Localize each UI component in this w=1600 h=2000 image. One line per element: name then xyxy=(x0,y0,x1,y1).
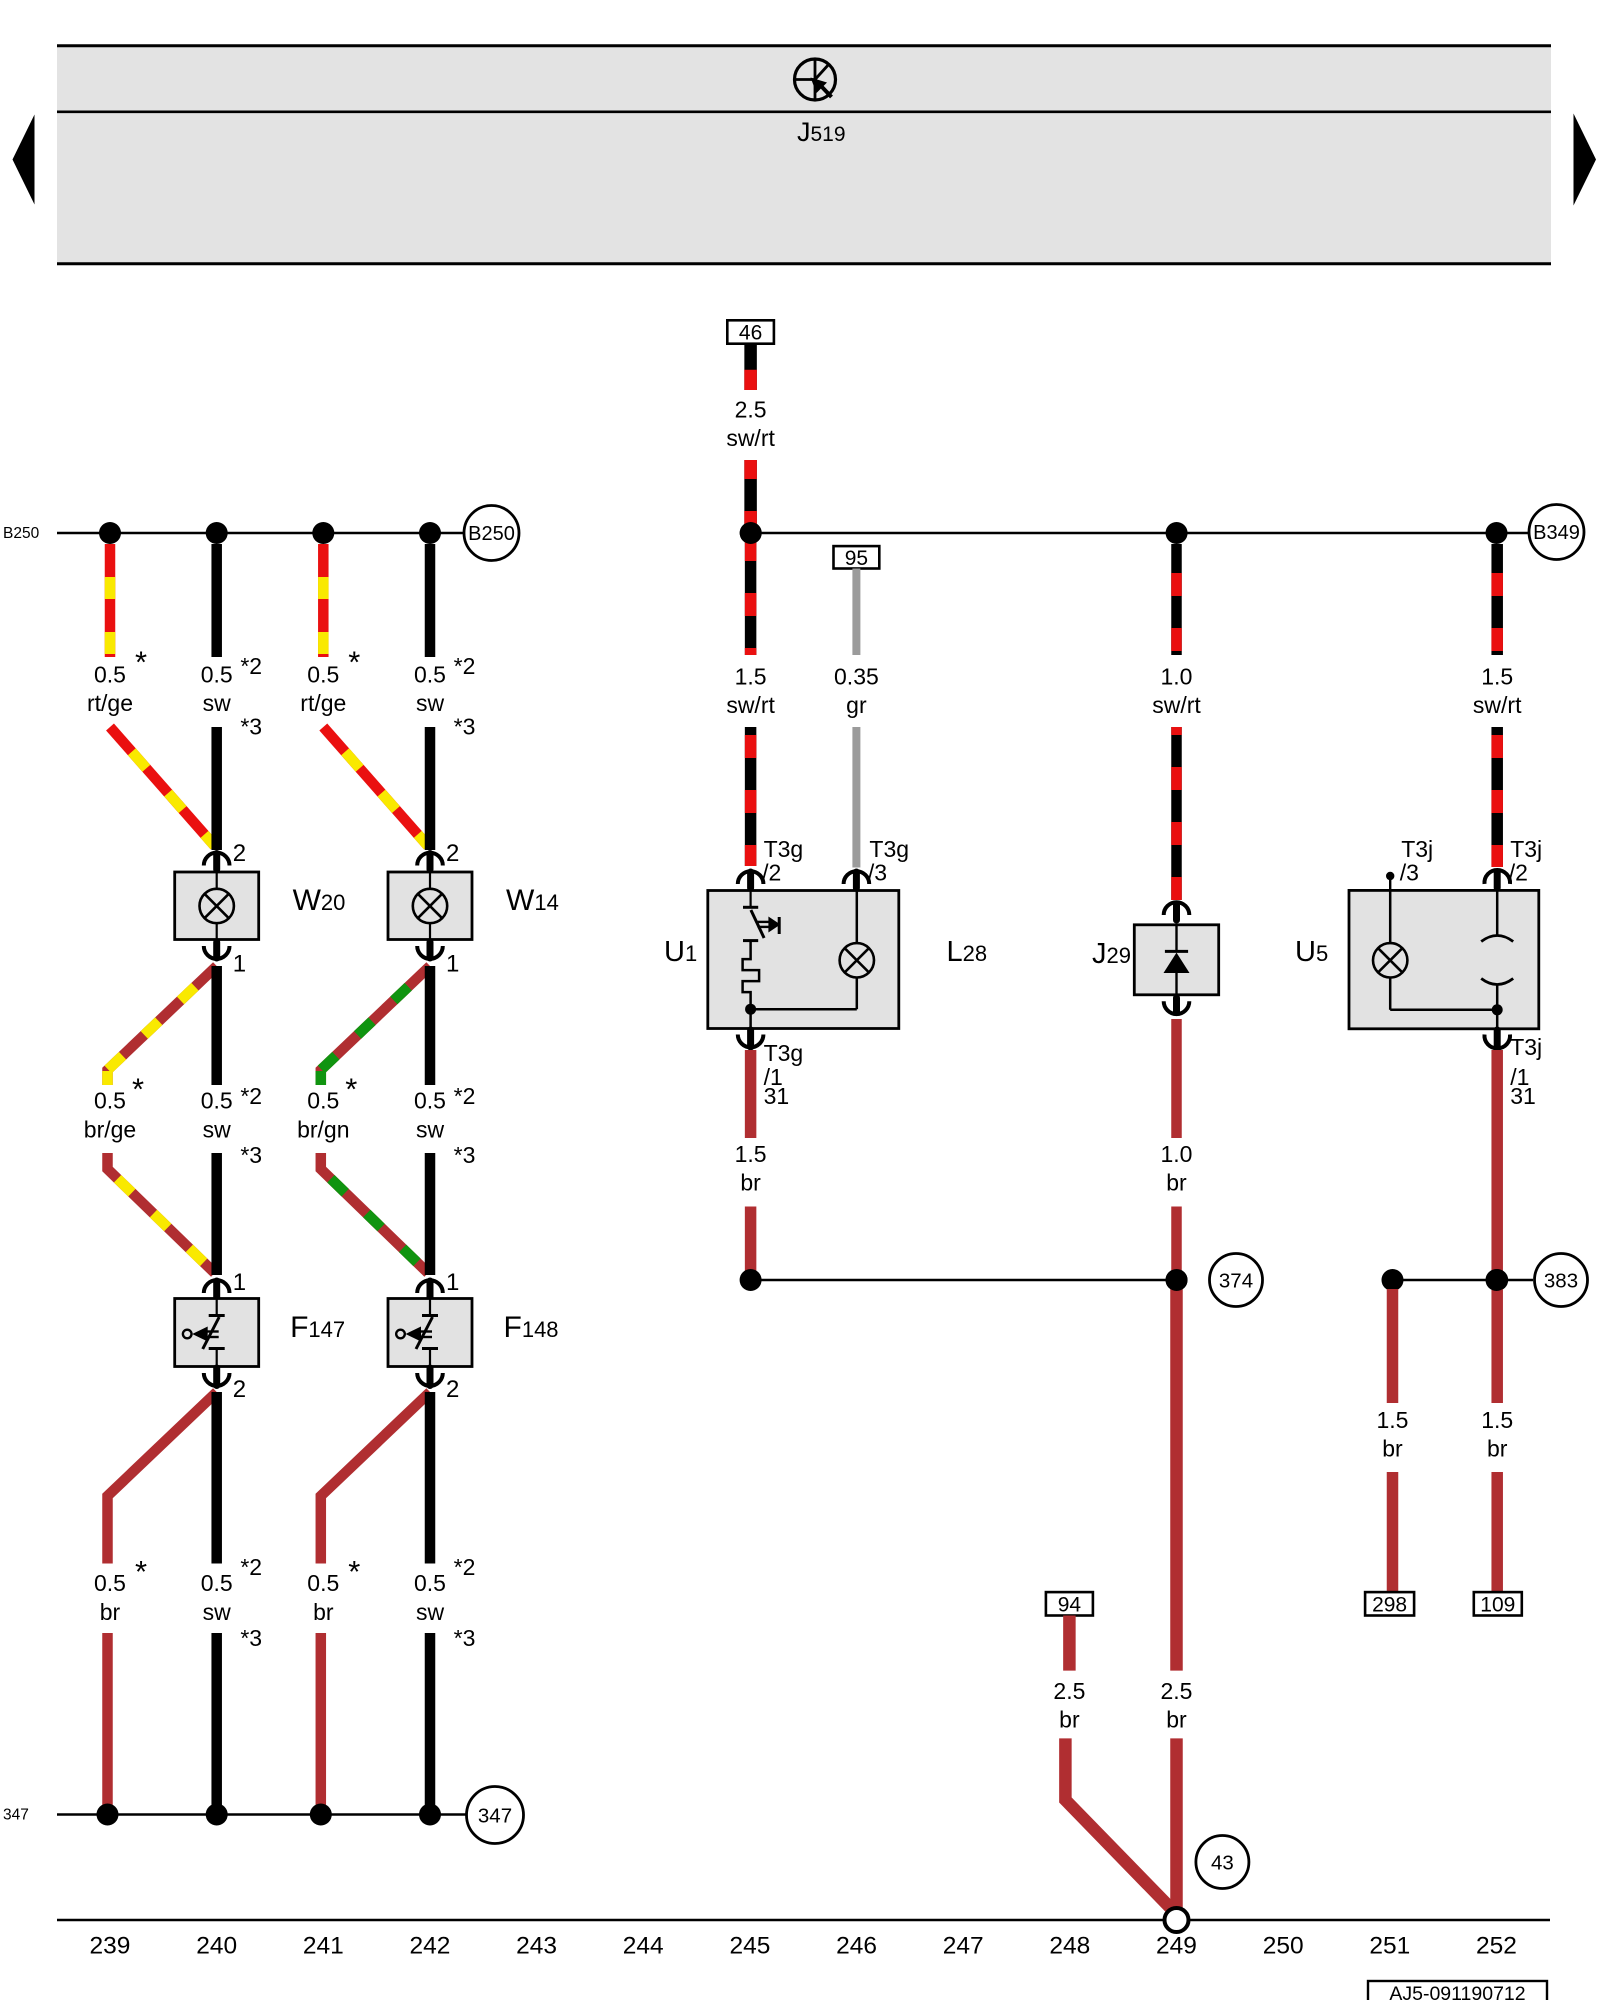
svg-text:1: 1 xyxy=(446,1269,459,1296)
wire 0.5 br to ground 347 xyxy=(102,1633,113,1815)
svg-text:251: 251 xyxy=(1369,1933,1410,1960)
svg-text:0.5: 0.5 xyxy=(414,1088,446,1114)
svg-text:sw/rt: sw/rt xyxy=(1473,692,1522,718)
junction dot 347/240 xyxy=(206,1804,228,1826)
junction dot B349/249 xyxy=(1166,522,1188,544)
cigarette lighter U1 / lamp L28 box xyxy=(708,891,899,1029)
wire 1.5 br from node 383 xyxy=(1387,1289,1399,1403)
lamp symbol W14 xyxy=(413,889,447,923)
page-link arrow right xyxy=(1574,114,1597,206)
label 0.5 sw xyxy=(201,1083,262,1168)
bus line B349 (terminal 30 connection) xyxy=(751,532,1529,535)
connector T3g/1 on U1 xyxy=(738,1030,803,1109)
label W20 xyxy=(293,884,346,917)
wire 1.0 sw/rt to diode J29 xyxy=(1171,727,1182,900)
lamp symbol in U5 xyxy=(1373,943,1407,977)
svg-text:W14: W14 xyxy=(506,884,559,917)
svg-text:br/gn: br/gn xyxy=(297,1117,349,1143)
node line 374 xyxy=(751,1279,1177,1282)
label L28 xyxy=(947,936,988,968)
wire 0.5 br elbow from F147 pin 2 xyxy=(108,1392,217,1564)
svg-text:*2: *2 xyxy=(240,1083,262,1109)
wire 0.5 sw from B250 (col 429) xyxy=(425,544,436,657)
svg-text:br/ge: br/ge xyxy=(84,1117,136,1143)
svg-text:sw: sw xyxy=(203,690,232,716)
svg-text:252: 252 xyxy=(1476,1933,1517,1960)
wire 1.5 br to terminal 298 xyxy=(1387,1472,1399,1592)
connector T3g/3 on U1 xyxy=(844,836,909,888)
svg-text:/3: /3 xyxy=(1400,860,1419,886)
label 2.5 sw/rt xyxy=(726,397,775,452)
ground line 347 xyxy=(57,1813,466,1816)
svg-text:sw: sw xyxy=(203,1599,232,1625)
wire 1.5 sw/rt from B349 xyxy=(745,533,757,655)
svg-text:sw: sw xyxy=(416,690,445,716)
svg-text:1.5: 1.5 xyxy=(1481,664,1513,690)
diode J29 box xyxy=(1134,925,1218,995)
connector F147 pin 2 xyxy=(204,1368,246,1403)
connector F147 pin 1 xyxy=(204,1269,246,1298)
node circle 43 xyxy=(1196,1836,1249,1889)
wire 0.35 gr to U1 T3g/3 xyxy=(852,727,860,868)
label 0.5 rt/ge xyxy=(87,645,147,717)
wire 2.5 sw/rt to B349 xyxy=(744,460,757,533)
svg-text:250: 250 xyxy=(1263,1933,1304,1960)
svg-text:T3j: T3j xyxy=(1401,836,1433,862)
svg-text:240: 240 xyxy=(196,1933,237,1960)
label F148 xyxy=(504,1311,559,1344)
wire 1.5 br to terminal 109 xyxy=(1491,1472,1503,1592)
U5 internal junction node xyxy=(1492,1004,1503,1015)
node circle 383 xyxy=(1535,1254,1588,1307)
svg-text:2.5: 2.5 xyxy=(735,397,767,423)
label 0.5 sw xyxy=(201,653,262,740)
svg-text:242: 242 xyxy=(410,1933,451,1960)
svg-text:1: 1 xyxy=(233,1269,246,1296)
svg-text:246: 246 xyxy=(836,1933,877,1960)
diagram number box AJ5-091190712 xyxy=(1368,1981,1547,2000)
wire 1.5 br from U5 T3j/1 xyxy=(1491,1050,1503,1280)
svg-text:T3j: T3j xyxy=(1510,1034,1542,1060)
wire 0.5 sw W14 to F148 xyxy=(425,966,436,1085)
svg-text:0.5: 0.5 xyxy=(307,662,339,688)
svg-text:F148: F148 xyxy=(504,1311,559,1344)
label 1.5 sw/rt xyxy=(1473,664,1522,719)
svg-text:sw/rt: sw/rt xyxy=(726,692,775,718)
wire 2.5 br from terminal 94 xyxy=(1063,1616,1076,1671)
wire 2.5 sw/rt from terminal 46 xyxy=(744,344,757,390)
wire 1.5 sw/rt from B349 xyxy=(1491,544,1503,655)
svg-text:br: br xyxy=(1059,1707,1080,1733)
svg-text:B349: B349 xyxy=(1533,522,1580,544)
label U5 xyxy=(1295,936,1328,968)
connector T3g/2 on U1 xyxy=(738,836,803,888)
label 1.5 sw/rt xyxy=(726,664,775,719)
svg-text:U5: U5 xyxy=(1295,936,1328,968)
svg-text:0.35: 0.35 xyxy=(834,664,879,690)
terminal box 109 xyxy=(1474,1592,1522,1616)
label 0.5 sw xyxy=(201,1554,262,1651)
label J519 xyxy=(797,117,846,147)
svg-text:0.5: 0.5 xyxy=(307,1570,339,1596)
junction dot 347/239 xyxy=(97,1804,119,1826)
label U1 xyxy=(664,936,697,968)
svg-text:0.5: 0.5 xyxy=(94,1088,126,1114)
svg-text:109: 109 xyxy=(1480,1593,1515,1616)
cigarette lighter U5 box xyxy=(1349,890,1539,1028)
push-button switch symbol F147 xyxy=(183,1299,225,1367)
label 0.5 br/ge xyxy=(84,1072,144,1143)
svg-text:95: 95 xyxy=(845,547,868,570)
svg-text:J29: J29 xyxy=(1092,938,1131,970)
svg-text:U1: U1 xyxy=(664,936,697,968)
wire 1.0 sw/rt from B349 xyxy=(1171,544,1182,655)
svg-text:rt/ge: rt/ge xyxy=(87,690,133,716)
wire 0.5 sw to F147 pin 1 xyxy=(211,1153,222,1275)
wire 0.5 br to ground 347 xyxy=(316,1633,327,1815)
wire 0.5 sw W20 to F147 xyxy=(211,966,222,1085)
wire 1.0 br through node 374 xyxy=(1171,1207,1182,1671)
svg-text:br: br xyxy=(1382,1436,1403,1462)
svg-text:*2: *2 xyxy=(240,1554,262,1580)
junction dot 383 right xyxy=(1486,1269,1508,1291)
wire 1.5 br below node 383 xyxy=(1491,1289,1503,1403)
svg-text:1.0: 1.0 xyxy=(1161,1141,1193,1167)
svg-text:43: 43 xyxy=(1211,1851,1234,1874)
node circle B349 xyxy=(1529,505,1584,560)
svg-text:sw: sw xyxy=(416,1599,445,1625)
wire 0.35 gr from terminal 95 xyxy=(852,569,860,656)
wire 0.5 br/ge elbow from W20 pin 1 xyxy=(108,966,217,1085)
junction dot 347/241 xyxy=(310,1804,332,1826)
ground label 347 (left margin) xyxy=(3,1807,29,1824)
svg-text:298: 298 xyxy=(1372,1593,1407,1616)
diode symbol J29 xyxy=(1164,925,1190,995)
svg-text:T3j: T3j xyxy=(1510,836,1542,862)
svg-text:1.5: 1.5 xyxy=(735,664,767,690)
wire rt/ge diagonal to W20 pin 2 xyxy=(110,727,215,846)
label 1.0 sw/rt xyxy=(1152,664,1201,719)
label 0.5 sw xyxy=(414,653,475,740)
svg-text:br: br xyxy=(1487,1436,1508,1462)
svg-text:*3: *3 xyxy=(240,714,262,740)
connector W20 pin 1 xyxy=(204,942,246,978)
svg-text:31: 31 xyxy=(764,1083,790,1109)
svg-text:gr: gr xyxy=(846,692,867,718)
svg-text:/2: /2 xyxy=(1509,860,1528,886)
lamp symbol L28 xyxy=(840,943,874,977)
junction dot B349/245 xyxy=(740,522,762,544)
svg-text:L28: L28 xyxy=(947,936,988,968)
label 0.5 rt/ge xyxy=(300,645,360,717)
svg-text:249: 249 xyxy=(1156,1933,1197,1960)
svg-text:241: 241 xyxy=(303,1933,344,1960)
svg-text:*3: *3 xyxy=(240,1625,262,1651)
node line 383 xyxy=(1393,1279,1534,1282)
svg-text:239: 239 xyxy=(90,1933,131,1960)
U5 pin T3j/3 stub xyxy=(1386,836,1433,890)
wire 0.5 rt/ge from B250 (col 110) xyxy=(105,544,116,657)
svg-text:94: 94 xyxy=(1058,1593,1082,1616)
svg-text:2: 2 xyxy=(233,840,246,867)
svg-text:T3g: T3g xyxy=(764,836,804,862)
svg-text:*: * xyxy=(348,1554,360,1589)
label 0.5 br xyxy=(307,1554,360,1625)
connector on diode J29 top xyxy=(1164,902,1190,920)
svg-text:1: 1 xyxy=(446,951,459,978)
junction dot B250/241 xyxy=(312,522,334,544)
svg-text:*3: *3 xyxy=(454,1625,476,1651)
svg-text:W20: W20 xyxy=(293,884,346,917)
U1 internal lead to T3g/1 xyxy=(749,1009,752,1028)
svg-text:0.5: 0.5 xyxy=(414,662,446,688)
terminal box 94 xyxy=(1046,1592,1093,1616)
svg-text:rt/ge: rt/ge xyxy=(300,690,346,716)
wire 0.5 br elbow from F148 pin 2 xyxy=(321,1392,430,1564)
current track numbers 239-252 xyxy=(90,1933,1517,1960)
svg-text:T3g: T3g xyxy=(869,836,909,862)
svg-text:374: 374 xyxy=(1219,1269,1253,1292)
push-button switch symbol F148 xyxy=(396,1299,438,1367)
svg-text:*3: *3 xyxy=(454,1142,476,1168)
svg-text:sw: sw xyxy=(416,1117,445,1143)
svg-text:243: 243 xyxy=(516,1933,557,1960)
svg-text:B250: B250 xyxy=(3,525,40,542)
svg-text:247: 247 xyxy=(943,1933,984,1960)
junction dot 383 right (top) xyxy=(1486,1269,1508,1291)
svg-text:*3: *3 xyxy=(454,714,476,740)
svg-text:*2: *2 xyxy=(240,653,262,679)
connector W14 pin 2 xyxy=(417,840,459,870)
wire 0.5 br/gn elbow from W14 pin 1 xyxy=(321,966,430,1085)
label 1.5 br xyxy=(1481,1407,1513,1462)
label 1.5 br xyxy=(735,1141,767,1196)
svg-text:T3g: T3g xyxy=(764,1040,804,1066)
svg-text:347: 347 xyxy=(3,1807,29,1824)
wire 0.5 sw to F148 pin 1 xyxy=(425,1153,436,1275)
svg-text:2.5: 2.5 xyxy=(1053,1678,1085,1704)
wire 0.5 sw to ground 347 xyxy=(211,1633,222,1815)
svg-text:*2: *2 xyxy=(454,1554,476,1580)
svg-text:sw/rt: sw/rt xyxy=(1152,692,1201,718)
connector W20 pin 2 xyxy=(204,840,246,870)
svg-text:383: 383 xyxy=(1544,1269,1578,1292)
label 0.5 sw xyxy=(414,1554,475,1651)
junction dot B250/242 xyxy=(419,522,441,544)
svg-text:sw/rt: sw/rt xyxy=(726,425,775,451)
junction dot 374 right (top) xyxy=(1166,1269,1188,1291)
connector F148 pin 2 xyxy=(417,1368,459,1403)
wire 0.5 sw from B250 (col 216) xyxy=(211,544,222,657)
label 0.5 br/gn xyxy=(297,1072,357,1143)
U5 internal lead to T3j/1 xyxy=(1496,1010,1499,1029)
svg-text:/3: /3 xyxy=(868,860,887,886)
U1 heater element symbol xyxy=(743,941,760,1010)
node circle 347 xyxy=(467,1787,524,1844)
U1 internal wire to lamp L28 xyxy=(751,891,857,1010)
junction dot B250/239 xyxy=(99,522,121,544)
svg-text:0.5: 0.5 xyxy=(307,1088,339,1114)
switch F147 box xyxy=(175,1299,259,1367)
wire 2.5 br elbow to ground point 43 xyxy=(1065,1738,1171,1909)
terminal box 298 xyxy=(1365,1592,1414,1616)
wire 1.0 br from diode J29 xyxy=(1171,1019,1182,1138)
junction dot 374 left xyxy=(740,1269,762,1291)
svg-text:br: br xyxy=(1166,1707,1187,1733)
J519 bus icon xyxy=(795,59,836,100)
junction dot B349/245 (top) xyxy=(740,522,762,544)
svg-text:/2: /2 xyxy=(762,860,781,886)
wire 0.5 sw to ground 347 xyxy=(425,1633,436,1815)
lamp W20 box xyxy=(175,872,259,940)
label F147 xyxy=(290,1311,345,1344)
label J29 xyxy=(1092,938,1131,970)
node circle B250 xyxy=(464,506,519,561)
svg-text:0.5: 0.5 xyxy=(94,662,126,688)
U1 switch contact symbol xyxy=(743,891,780,939)
control unit J519 (onboard supply control unit) bus bar xyxy=(57,45,1551,264)
connector on diode J29 bottom xyxy=(1164,998,1190,1014)
wire 2.5 br to ground point 43 xyxy=(1170,1738,1183,1914)
junction dot B349/252 xyxy=(1486,522,1508,544)
junction dot 347/242 xyxy=(419,1804,441,1826)
svg-text:2: 2 xyxy=(446,840,459,867)
svg-text:0.5: 0.5 xyxy=(201,662,233,688)
lamp symbol W20 xyxy=(200,889,234,923)
wire 0.5 sw to W20 pin 2 xyxy=(211,727,222,850)
connector W14 pin 1 xyxy=(417,942,459,978)
svg-text:*: * xyxy=(132,1072,144,1107)
svg-text:br: br xyxy=(313,1599,334,1625)
wire 0.5 rt/ge from B250 (col 323) xyxy=(318,544,329,657)
label 0.35 gr xyxy=(834,664,879,719)
svg-text:AJ5-091190712: AJ5-091190712 xyxy=(1389,1983,1525,2000)
svg-text:2: 2 xyxy=(446,1376,459,1403)
bus line B250 (positive connection) xyxy=(57,532,464,535)
label W14 xyxy=(506,884,559,917)
page-link arrow left xyxy=(13,115,35,205)
svg-text:br: br xyxy=(100,1599,121,1625)
wire 1.5 sw/rt to U1 T3g/2 xyxy=(745,727,757,866)
wire 0.5 sw to W14 pin 2 xyxy=(425,727,436,850)
label 2.5 br xyxy=(1161,1678,1193,1733)
junction dot 383 left xyxy=(1382,1269,1404,1291)
svg-text:*: * xyxy=(135,1554,147,1589)
svg-text:1.5: 1.5 xyxy=(1481,1407,1513,1433)
wire 0.5 br/ge elbow to F147 pin 1 xyxy=(108,1153,215,1273)
wire 0.5 br/gn elbow to F148 pin 1 xyxy=(321,1153,428,1273)
svg-text:*: * xyxy=(135,645,147,680)
node label B250 (left margin) xyxy=(3,525,40,542)
wire 0.5 sw from F148 pin 2 xyxy=(425,1392,436,1564)
lamp W14 box xyxy=(388,872,472,940)
svg-text:*: * xyxy=(345,1072,357,1107)
svg-text:0.5: 0.5 xyxy=(414,1570,446,1596)
svg-text:*3: *3 xyxy=(240,1142,262,1168)
label 2.5 br xyxy=(1053,1678,1085,1733)
svg-text:2.5: 2.5 xyxy=(1161,1678,1193,1704)
svg-text:248: 248 xyxy=(1049,1933,1090,1960)
label 1.5 br xyxy=(1377,1407,1409,1462)
wire rt/ge diagonal to W14 pin 2 xyxy=(323,727,428,846)
svg-text:244: 244 xyxy=(623,1933,664,1960)
junction dot B250/240 xyxy=(206,522,228,544)
svg-text:1.5: 1.5 xyxy=(735,1141,767,1167)
svg-text:2: 2 xyxy=(233,1376,246,1403)
label 0.5 br xyxy=(94,1554,147,1625)
svg-text:br: br xyxy=(1166,1170,1187,1196)
U1 internal junction node xyxy=(745,1004,756,1015)
svg-text:br: br xyxy=(740,1170,761,1196)
svg-text:*: * xyxy=(348,645,360,680)
connector F148 pin 1 xyxy=(417,1269,459,1298)
svg-text:245: 245 xyxy=(729,1933,770,1960)
label 1.0 br xyxy=(1161,1141,1193,1196)
svg-text:1.5: 1.5 xyxy=(1377,1407,1409,1433)
U5 internal lamp lead xyxy=(1389,890,1392,943)
svg-text:347: 347 xyxy=(478,1804,512,1827)
svg-text:46: 46 xyxy=(739,322,762,345)
switch F148 box xyxy=(388,1299,472,1367)
ground connection point 43 (open circle) xyxy=(1165,1908,1189,1932)
wire 1.5 br from U1 T3g/1 xyxy=(745,1050,757,1138)
svg-text:1: 1 xyxy=(233,951,246,978)
connector T3j/1 on U5 xyxy=(1484,1030,1542,1109)
terminal box 46 xyxy=(727,320,774,344)
svg-text:1.0: 1.0 xyxy=(1161,664,1193,690)
junction dot 374 right xyxy=(1166,1269,1188,1291)
svg-text:B250: B250 xyxy=(468,523,515,545)
wire 1.5 br to node 374 xyxy=(745,1207,757,1281)
svg-text:0.5: 0.5 xyxy=(201,1570,233,1596)
U5 internal wire from lamp to junction xyxy=(1390,978,1497,1010)
svg-text:*2: *2 xyxy=(454,1083,476,1109)
wire 0.5 sw from F147 pin 2 xyxy=(211,1392,222,1564)
svg-text:0.5: 0.5 xyxy=(94,1570,126,1596)
connector T3j/2 on U5 xyxy=(1484,836,1542,888)
svg-text:F147: F147 xyxy=(290,1311,345,1344)
terminal box 95 xyxy=(834,546,880,570)
node circle 374 xyxy=(1210,1254,1263,1307)
svg-text:*2: *2 xyxy=(454,653,476,679)
svg-text:31: 31 xyxy=(1510,1083,1536,1109)
U5 socket contact symbol xyxy=(1481,890,1513,1009)
svg-text:0.5: 0.5 xyxy=(201,1088,233,1114)
svg-text:sw: sw xyxy=(203,1117,232,1143)
current-track scale line xyxy=(57,1919,1550,1922)
wire 1.5 sw/rt to U5 T3j/2 xyxy=(1491,727,1503,867)
label 0.5 sw xyxy=(414,1083,475,1168)
